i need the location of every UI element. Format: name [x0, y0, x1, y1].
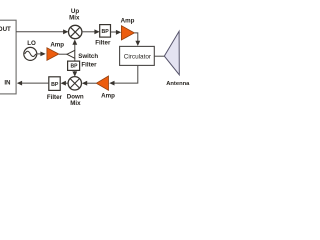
svg-text:LO: LO	[27, 40, 36, 47]
svg-text:Filter: Filter	[95, 39, 111, 46]
svg-text:OUT: OUT	[0, 26, 11, 33]
svg-text:Filter: Filter	[47, 94, 63, 101]
svg-text:BP: BP	[71, 64, 79, 70]
svg-text:Amp: Amp	[101, 93, 115, 100]
svg-text:Mix: Mix	[69, 15, 80, 22]
svg-text:Mix: Mix	[70, 100, 81, 107]
svg-text:BP: BP	[101, 29, 109, 35]
svg-text:Amp: Amp	[50, 42, 64, 49]
svg-text:Switch: Switch	[78, 53, 98, 60]
svg-text:Circulator: Circulator	[124, 53, 152, 60]
svg-text:IN: IN	[4, 80, 11, 87]
svg-text:Filter: Filter	[81, 61, 97, 68]
svg-text:BP: BP	[51, 82, 59, 88]
svg-text:Antenna: Antenna	[166, 81, 190, 87]
svg-text:Amp: Amp	[121, 17, 135, 24]
